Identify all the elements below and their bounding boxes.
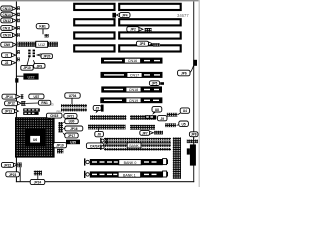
connector CN10 pins <box>17 33 20 37</box>
scan border top <box>0 0 200 1</box>
svg-text:U5: U5 <box>182 122 186 126</box>
svg-text:34677: 34677 <box>177 13 189 18</box>
board bottom edge <box>16 181 194 182</box>
connector J2 pins <box>17 57 20 61</box>
connector tag CN10 <box>1 33 17 38</box>
connector tag CN11 <box>1 26 16 31</box>
tag JP2 between slots 2 and 3 <box>127 27 143 32</box>
scan border right <box>199 0 201 187</box>
svg-text:U35: U35 <box>70 140 76 144</box>
connector CN11 pins <box>17 26 20 30</box>
svg-text:CN13: CN13 <box>3 7 11 11</box>
JP7 pins <box>154 131 163 135</box>
svg-text:JP2: JP2 <box>130 28 136 32</box>
jumper tag JP20 <box>37 54 52 59</box>
svg-text:CN19: CN19 <box>129 99 138 103</box>
svg-text:U8: U8 <box>155 108 159 112</box>
jumper tag JP24 <box>30 179 45 184</box>
svg-text:JP8: JP8 <box>191 133 197 137</box>
connector J1 pins <box>17 50 20 54</box>
ISA slot 1 right segment <box>119 4 181 10</box>
svg-text:JP13: JP13 <box>5 110 13 114</box>
SIP memory row 2 <box>104 141 171 144</box>
svg-text:CN17: CN17 <box>130 74 139 78</box>
jumper tag JP13 <box>2 109 18 114</box>
svg-text:U22: U22 <box>28 75 35 79</box>
tag J5 <box>93 105 101 113</box>
tag RN1 <box>38 100 50 105</box>
svg-text:J2: J2 <box>5 61 9 65</box>
ISA slot 6 <box>101 72 163 78</box>
svg-text:JP22: JP22 <box>4 163 12 167</box>
svg-text:U4: U4 <box>183 109 187 113</box>
svg-text:CN11: CN11 <box>3 27 11 31</box>
I/O port header label U12 <box>36 41 48 47</box>
JP22 pins 2x2 <box>17 163 21 168</box>
SIMM socket row 2 <box>84 171 168 178</box>
edge connector mark <box>15 78 18 82</box>
ISA slot 4 left segment <box>74 45 114 51</box>
svg-text:DX/SX: DX/SX <box>90 144 100 148</box>
jumper tag JP22 <box>1 162 17 167</box>
chip U22 leader <box>17 75 24 77</box>
battery header <box>34 171 42 176</box>
svg-text:JP7: JP7 <box>142 131 148 135</box>
svg-text:KB1: KB1 <box>39 25 46 29</box>
svg-text:CN10: CN10 <box>3 34 11 38</box>
ISA slot 7 <box>101 86 162 92</box>
ISA slot 2 left segment <box>74 19 114 25</box>
connector CN13 pins <box>17 6 20 10</box>
jumper pins below U35 <box>57 149 63 154</box>
power connector tab <box>187 148 190 154</box>
svg-text:JP9: JP9 <box>36 64 42 68</box>
connector CN14 pins <box>17 13 20 17</box>
tag RN1 leader <box>26 102 39 104</box>
svg-text:J3: J3 <box>50 102 54 106</box>
tag JP17 <box>63 133 78 138</box>
SIP memory row 1 <box>104 138 171 141</box>
svg-text:U37: U37 <box>33 95 39 99</box>
U704 leader line <box>71 98 73 104</box>
tag JP8 <box>189 132 198 137</box>
svg-text:JP21: JP21 <box>67 114 75 118</box>
ISA slot 2 right segment <box>119 19 181 25</box>
svg-text:JP20: JP20 <box>43 55 51 59</box>
CPU socket U6 <box>15 117 55 157</box>
jumper tag JP9 <box>33 60 45 68</box>
jumper JP14 pins <box>21 94 24 99</box>
header row F segment 2 <box>130 125 155 130</box>
chip row U24 <box>23 112 38 115</box>
chip U9 <box>145 115 157 119</box>
header row E segment 2 <box>130 115 156 120</box>
header row F segment 1 <box>88 125 126 130</box>
header row E segment 3 <box>167 113 178 117</box>
svg-text:CN15: CN15 <box>50 114 58 118</box>
tag JP7 with pins <box>140 130 154 135</box>
keyboard tag KB1 <box>36 24 49 29</box>
tag JP6 <box>178 70 190 76</box>
SIMM socket row 1 <box>84 158 168 165</box>
header near power <box>187 140 198 144</box>
svg-text:JP3: JP3 <box>140 42 146 46</box>
svg-text:J5: J5 <box>95 107 99 111</box>
svg-text:CN9: CN9 <box>4 43 11 47</box>
connector tag CN14 <box>1 12 16 17</box>
svg-text:CN16: CN16 <box>128 59 137 63</box>
SIP divider tick <box>106 138 107 144</box>
svg-text:BANK 0: BANK 0 <box>124 161 137 165</box>
ISA slot 3 left segment <box>74 32 114 38</box>
label BANK 2/3 <box>127 143 141 148</box>
jumper tag J2 <box>2 60 16 65</box>
I/O port header row <box>18 42 59 47</box>
chip row U23 <box>23 108 40 111</box>
tag JP21 <box>64 114 77 119</box>
header block row 1 <box>61 104 87 107</box>
power connector CN1 <box>190 144 196 165</box>
tag JP5 above row 7 <box>149 81 159 86</box>
tag U5 <box>177 121 189 126</box>
svg-text:BANK 1: BANK 1 <box>123 173 136 177</box>
ISA slot 5 <box>101 58 163 64</box>
tag DX2/SX <box>86 143 103 149</box>
tag JP19 <box>53 143 66 148</box>
tag JP16 <box>63 126 83 131</box>
JP3 pins <box>153 43 160 46</box>
keyboard leader line <box>42 29 44 34</box>
svg-text:U30: U30 <box>69 120 75 124</box>
jumper tag JP10 <box>21 56 33 70</box>
SIP rows left clip top <box>100 138 104 143</box>
svg-text:U704: U704 <box>69 94 77 98</box>
header row F segment 3 <box>165 123 176 127</box>
svg-text:J6: J6 <box>97 133 101 137</box>
tag JP6 leader <box>190 66 194 73</box>
svg-text:JP24: JP24 <box>34 181 42 185</box>
svg-text:CN12: CN12 <box>3 19 11 23</box>
tag U37 <box>29 94 44 99</box>
board right edge <box>192 2 195 183</box>
tag U8 <box>152 107 162 115</box>
svg-text:JP19: JP19 <box>56 144 64 148</box>
JP8 leader <box>193 137 195 140</box>
svg-text:JP16: JP16 <box>70 127 78 131</box>
svg-text:RN1: RN1 <box>41 101 48 105</box>
connector tag CN13 <box>1 6 16 11</box>
svg-text:JP5: JP5 <box>152 82 158 86</box>
jumper tag JP12 <box>5 101 21 106</box>
svg-text:JP14: JP14 <box>5 95 13 99</box>
ISA slot 3 right segment <box>119 32 181 38</box>
JP23 leader down <box>19 167 21 181</box>
svg-text:JP4: JP4 <box>122 14 128 18</box>
tag JP3 between slots 3 and 4 <box>136 41 152 46</box>
keyboard connector <box>44 34 48 37</box>
tag J9 <box>157 116 167 121</box>
small chip right of J5 <box>101 105 104 112</box>
SIP memory row 4 <box>104 148 171 151</box>
tag JP4 between slots <box>112 13 130 18</box>
chip U22 <box>23 73 38 79</box>
connector tag CN12 <box>1 18 17 23</box>
tag U704 <box>65 93 80 98</box>
jumper tag JP23 <box>6 172 20 177</box>
svg-text:JP12: JP12 <box>7 102 15 106</box>
tag U30 <box>63 119 78 124</box>
jumper column right of CPU <box>58 122 63 132</box>
svg-text:U12: U12 <box>38 43 45 47</box>
jumper block 2x3 <box>28 50 35 58</box>
svg-text:CN14: CN14 <box>3 13 11 17</box>
svg-text:JP10: JP10 <box>23 66 31 70</box>
connector CN12 pins <box>17 19 20 23</box>
tag J6 under row F <box>95 128 104 137</box>
power LED connector on right edge <box>193 60 197 66</box>
vertical pin strip <box>173 137 181 178</box>
tag CN15 <box>46 113 62 121</box>
header block row 2 <box>61 108 87 111</box>
svg-text:JP6: JP6 <box>181 72 187 76</box>
ISA slot 4 right segment <box>119 45 181 51</box>
svg-text:BANK: BANK <box>129 144 139 148</box>
header row E segment 1 <box>90 115 126 120</box>
svg-text:J1: J1 <box>5 54 9 58</box>
svg-text:J9: J9 <box>160 117 164 121</box>
svg-text:CN18: CN18 <box>129 88 138 92</box>
JP5 pins <box>160 82 164 85</box>
chip U35 <box>66 140 80 145</box>
SIP rows left clip bottom <box>100 145 104 150</box>
jumper JP12 pins 2x2 <box>21 101 25 106</box>
svg-text:JP17: JP17 <box>68 134 76 138</box>
svg-text:U6: U6 <box>33 138 37 142</box>
battery leader <box>37 175 39 179</box>
svg-text:JP23: JP23 <box>9 173 17 177</box>
jumper tag J1 <box>2 53 16 58</box>
ISA slot 1 left segment <box>74 4 114 10</box>
jumper tag JP14 <box>2 94 20 99</box>
SIP memory row 3 <box>104 144 171 147</box>
board left edge <box>16 2 17 183</box>
ISA slot 8 <box>100 97 162 103</box>
connector tag CN9 <box>1 42 17 47</box>
JP2 pins <box>145 28 152 32</box>
svg-text:J4: J4 <box>84 105 88 109</box>
tag U4 <box>178 108 190 115</box>
